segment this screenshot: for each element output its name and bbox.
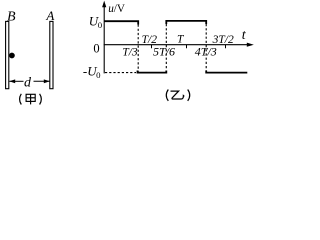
caption (乙) right parenthesis [188, 90, 190, 101]
tick at T [186, 45, 188, 49]
plate B (left capacitor plate) [6, 21, 9, 88]
plate A (right capacitor plate) [50, 21, 53, 88]
wave: low segment 1 at -U0 [138, 71, 167, 73]
svg-text:u/V: u/V [108, 3, 125, 15]
caption (甲) left parenthesis [20, 94, 22, 105]
wave: high segment 1 at +U0 [104, 21, 138, 24]
dimension arrow d (right half) [34, 79, 50, 83]
wave: low segment 2 at -U0 [206, 71, 247, 73]
tick at 3T/2 [225, 45, 227, 49]
caption (甲) right parenthesis [40, 94, 42, 105]
caption glyph 乙 [171, 91, 184, 99]
svg-text:4T/3: 4T/3 [195, 44, 217, 58]
x-axis (t axis) [104, 44, 250, 46]
tick at T/2 [151, 45, 153, 49]
charged particle dot [9, 53, 15, 59]
caption glyph 甲 [26, 94, 35, 104]
y-axis arrowhead [102, 1, 106, 8]
caption (乙) left parenthesis [166, 90, 168, 101]
dashed level line at -U0 from axis to T/3 [105, 72, 136, 74]
wave: high segment 2 at +U0 [166, 21, 206, 24]
dashed vertical at 4T/3 [205, 24, 207, 71]
svg-text:0: 0 [93, 41, 99, 55]
svg-text:d: d [24, 76, 32, 91]
svg-text:5T/6: 5T/6 [153, 44, 175, 58]
y-axis (u axis) [103, 4, 105, 74]
x-axis arrowhead [247, 43, 254, 47]
dashed vertical at T/3 [137, 25, 139, 73]
dashed vertical at 5T/6 [165, 24, 167, 70]
dimension arrow d (left half) [9, 79, 23, 83]
svg-text:T/3: T/3 [122, 46, 138, 58]
